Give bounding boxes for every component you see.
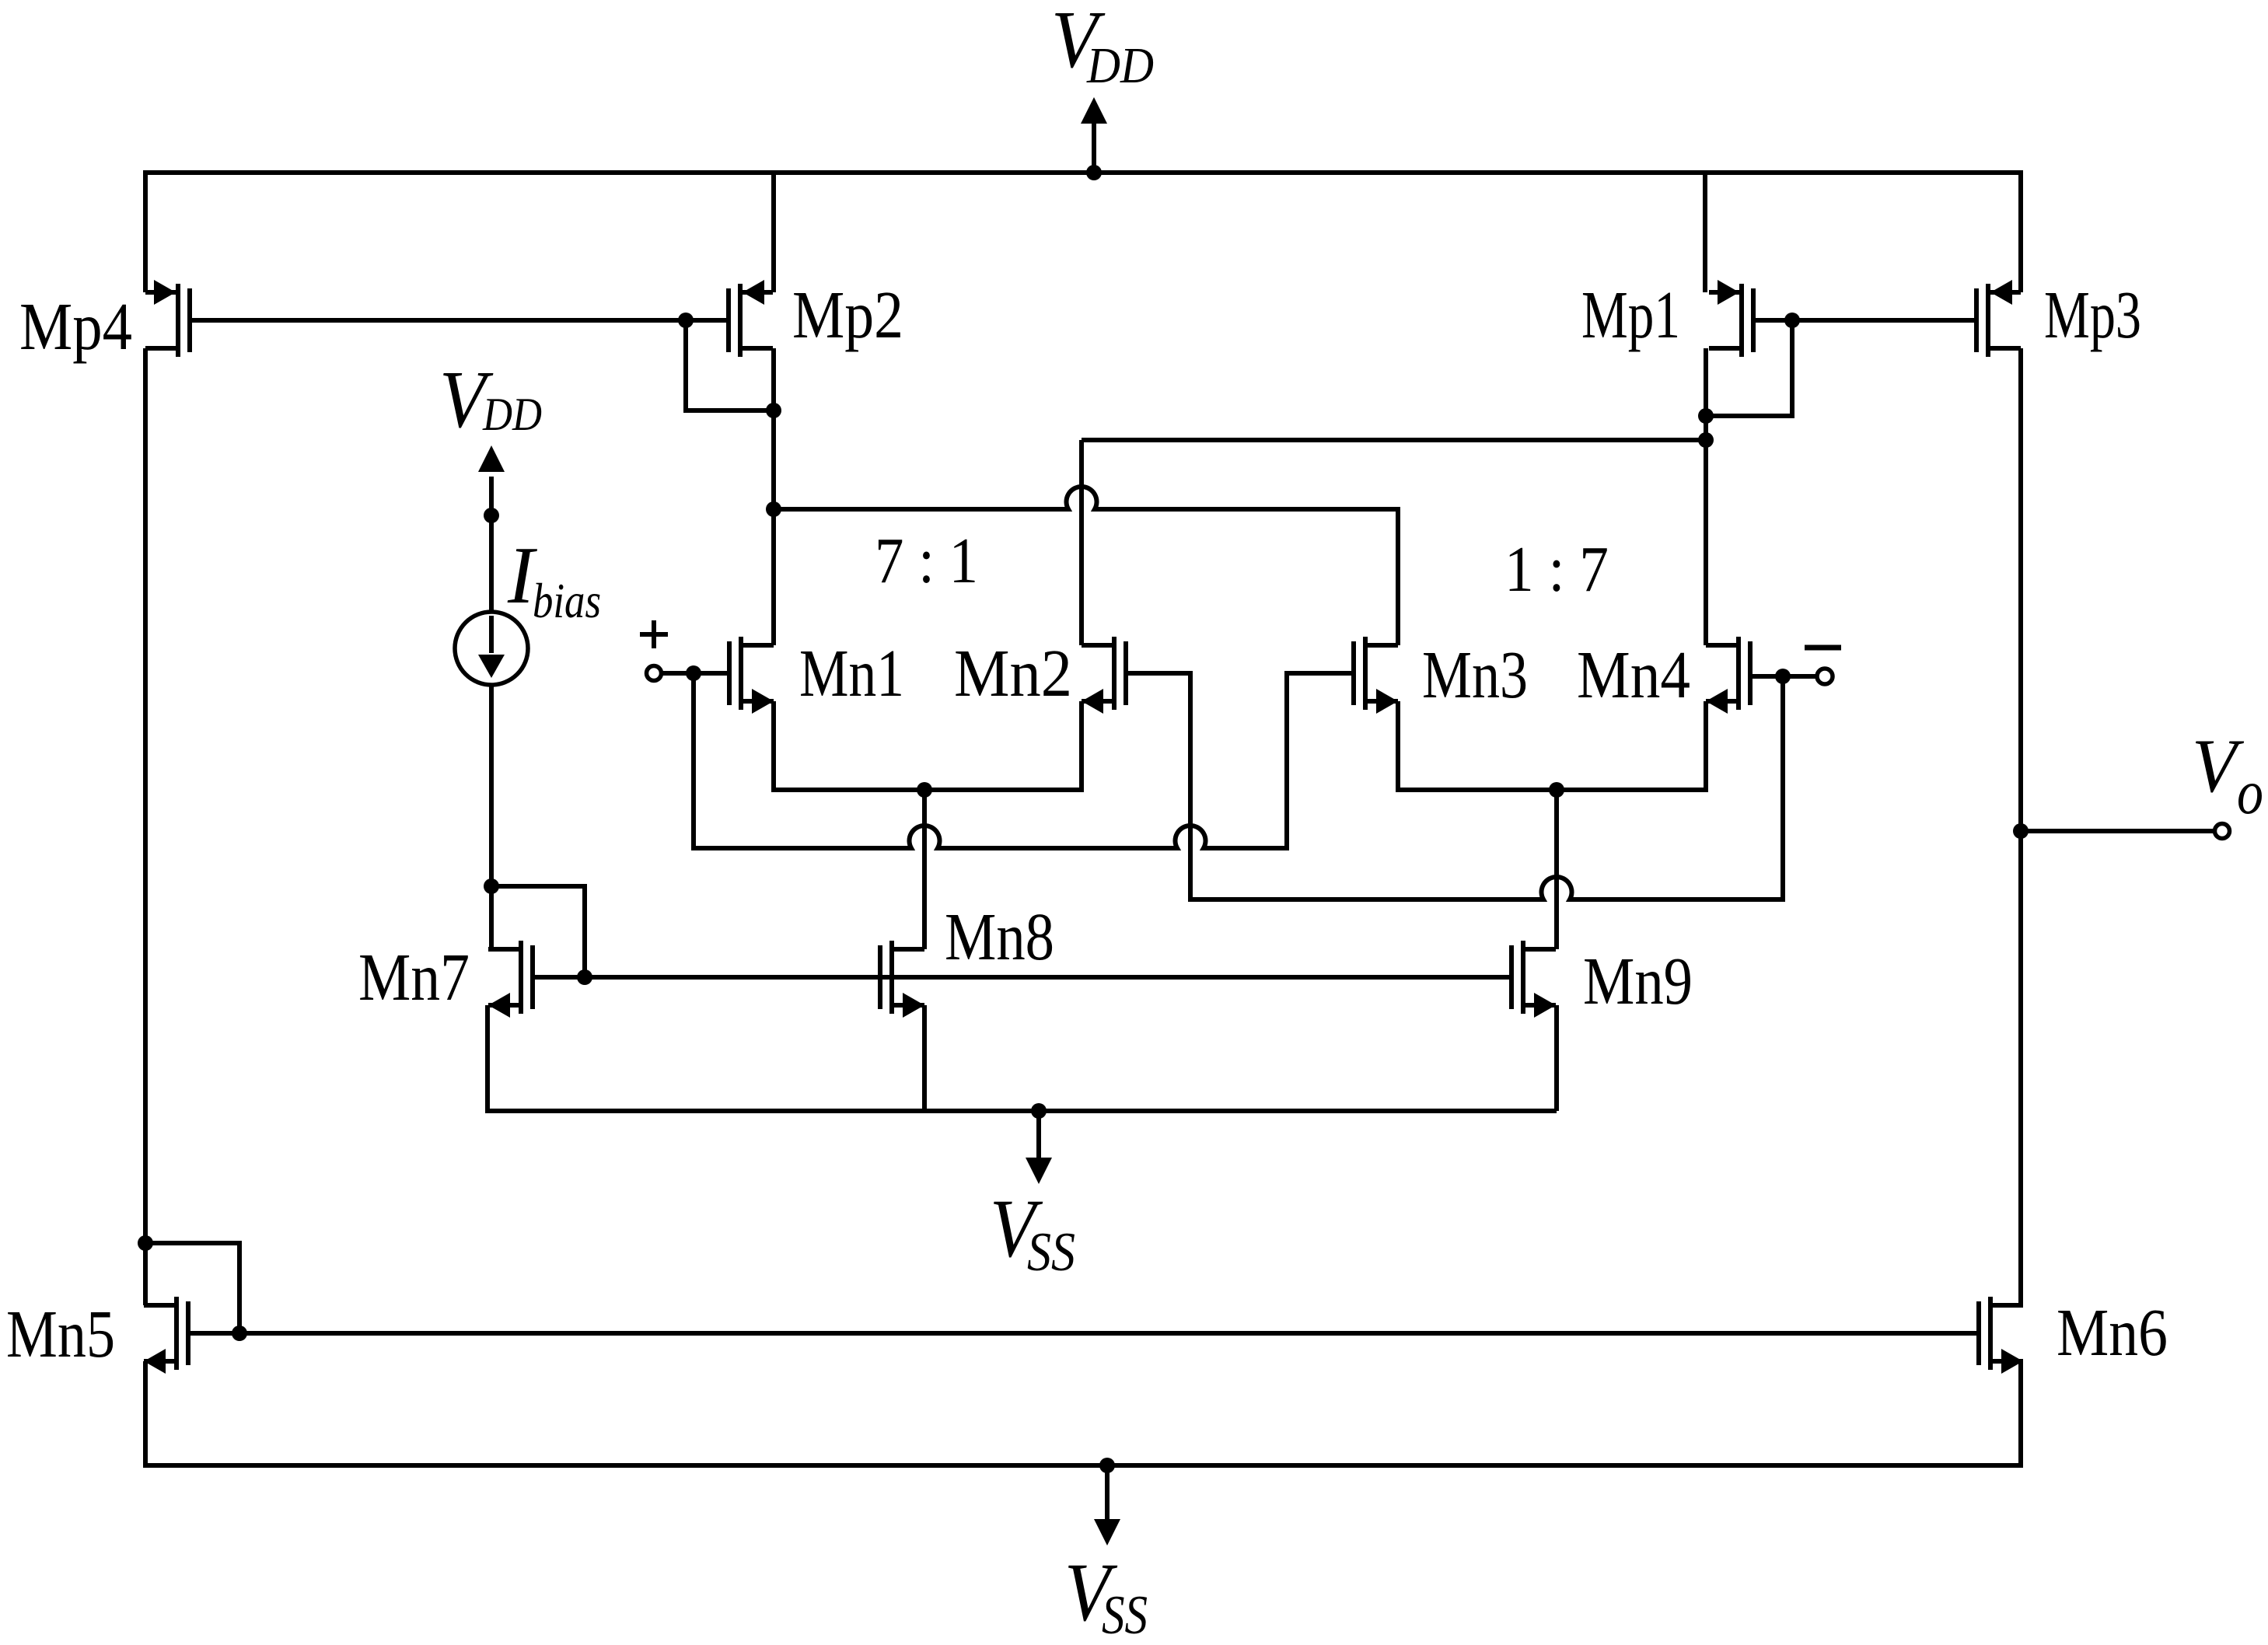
svg-text:SS: SS xyxy=(1027,1222,1075,1283)
svg-text:Mp1: Mp1 xyxy=(1581,277,1680,352)
svg-text:Mn5: Mn5 xyxy=(6,1296,115,1371)
svg-text:DD: DD xyxy=(482,389,542,440)
svg-text:Mn9: Mn9 xyxy=(1583,943,1693,1018)
svg-text:1 : 7: 1 : 7 xyxy=(1504,533,1609,606)
svg-text:Mn7: Mn7 xyxy=(358,939,470,1015)
svg-text:Mn4: Mn4 xyxy=(1577,637,1690,712)
svg-text:Mn1: Mn1 xyxy=(799,635,904,711)
svg-text:Mn8: Mn8 xyxy=(945,899,1054,974)
svg-text:Mn3: Mn3 xyxy=(1422,637,1528,712)
svg-text:Mp3: Mp3 xyxy=(2044,277,2141,352)
svg-text:o: o xyxy=(2237,759,2263,827)
svg-text:SS: SS xyxy=(1102,1585,1148,1641)
svg-text:7 : 1: 7 : 1 xyxy=(875,525,978,597)
svg-text:bias: bias xyxy=(533,573,601,628)
svg-text:Mn2: Mn2 xyxy=(954,635,1072,711)
svg-text:DD: DD xyxy=(1086,37,1154,94)
svg-text:Mp4: Mp4 xyxy=(19,288,132,364)
svg-text:Mp2: Mp2 xyxy=(792,277,903,352)
svg-text:Mn6: Mn6 xyxy=(2057,1294,2168,1370)
